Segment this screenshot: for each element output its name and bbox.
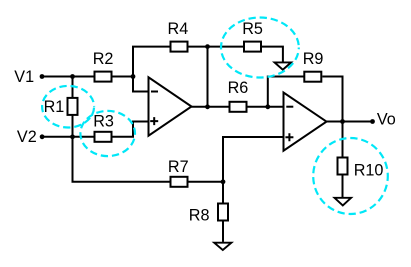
highlight ellipse around R3 (80, 111, 135, 156)
ground below R10 (335, 198, 352, 206)
wire node D up to R9 left (268, 77, 305, 107)
junction U1 output/R6 (205, 104, 210, 109)
wire R10 bottom to ground (342, 175, 344, 198)
highlight ellipse around R5 (221, 18, 299, 78)
highlight ellipse around R1 (42, 86, 94, 128)
wire R8 bottom to ground (222, 221, 224, 242)
svg-text:V1: V1 (14, 68, 34, 86)
resistor R4 (168, 20, 189, 52)
wire output node down to R10 (342, 122, 344, 158)
svg-text:Vo: Vo (377, 110, 396, 128)
wire R7 right to node F (188, 181, 224, 183)
wire node F down to R8 top (222, 182, 224, 204)
wire node B down to U1 inverting input (133, 77, 149, 92)
ground below R8 (214, 243, 231, 250)
svg-text:R1: R1 (44, 98, 65, 116)
wire R2 to node B (113, 76, 134, 78)
wire U1 output to R6 left (192, 106, 230, 108)
highlight ellipse around R10 (313, 138, 388, 214)
resistor R10 (338, 158, 384, 180)
svg-text:R4: R4 (168, 20, 189, 38)
svg-text:R6: R6 (228, 79, 249, 97)
wire V1 lead to R2 (42, 76, 94, 78)
op-amp U2 (284, 93, 327, 151)
svg-text:V2: V2 (17, 128, 37, 146)
resistor R6 (228, 79, 249, 112)
svg-text:R8: R8 (189, 207, 210, 225)
junction U2 output/R9/R10/Vo (340, 119, 345, 124)
wire R4 right to node C (188, 46, 208, 48)
wire R6 right to U2 inverting input (248, 106, 284, 108)
svg-text:R7: R7 (168, 158, 189, 176)
resistor R7 (168, 158, 189, 187)
svg-text:R10: R10 (354, 161, 384, 179)
resistor R1 (44, 98, 78, 116)
op-amp U1 (149, 77, 192, 135)
node V2 terminal (17, 128, 45, 146)
svg-text:R2: R2 (93, 50, 114, 68)
svg-text:R3: R3 (93, 112, 114, 130)
resistor R3 (93, 112, 114, 142)
junction V1/R1/R2 (70, 74, 75, 79)
svg-text:R9: R9 (303, 50, 324, 68)
junction R4/R5/feedback (205, 44, 210, 49)
wire R9 right down to U2 output node (322, 77, 342, 122)
wire U2 output to Vo terminal (327, 121, 373, 123)
wire R1 bottom to node E (72, 115, 74, 137)
wire node A down to R1 top (72, 77, 74, 98)
wire node C down to U1 output (207, 47, 209, 107)
junction R2/R4/U1- (131, 74, 136, 79)
wire node B up to R4 left (133, 47, 170, 77)
ground below R5 (275, 62, 292, 69)
wire node E down to R7 left (73, 137, 170, 182)
node V1 terminal (14, 68, 44, 86)
svg-text:R5: R5 (242, 20, 263, 38)
wire node F up to U2 non-inverting input (223, 137, 284, 182)
wire R5 right to ground drop (262, 47, 283, 62)
resistor R8 (189, 204, 228, 225)
node Vo terminal (370, 110, 396, 128)
resistor R5 (242, 20, 263, 52)
resistor R9 (303, 50, 324, 82)
junction R6/R9/U2- (265, 104, 270, 109)
resistor R2 (93, 50, 114, 82)
junction V2/R1/R3/R7 (70, 134, 75, 139)
wire R3 right up to U1 non-inverting input (112, 122, 148, 137)
junction R7/R8/U2+ (221, 179, 226, 184)
wire node C to R5 left (208, 46, 244, 48)
wire V2 lead to R3 (42, 136, 93, 138)
